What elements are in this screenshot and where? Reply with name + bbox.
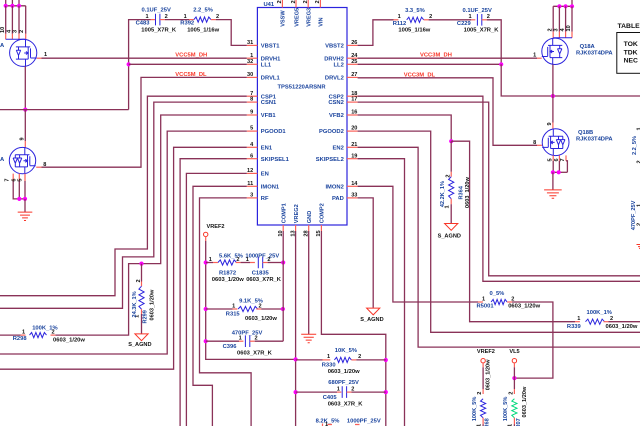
wire IMON1 (pin11) to bottom edge: [193, 186, 247, 426]
U41 pin 14 IMON2 (right): [347, 185, 358, 187]
resistor R392 2.2_5%: [194, 17, 211, 22]
svg-text:TOK: TOK: [624, 41, 638, 48]
svg-text:2: 2: [477, 392, 483, 395]
U41 pin 32 LL1 (left): [247, 63, 258, 65]
svg-text:2: 2: [216, 14, 219, 20]
U41 pin 17 CSN2 (right): [347, 101, 358, 103]
wire COMP2 (pin15) down and over to R330/C405 right node: [321, 231, 385, 426]
resistor R112 3.3_5%: [407, 17, 424, 22]
U41 pin 3 RF (left): [247, 197, 258, 199]
svg-text:VREG5: VREG5: [294, 8, 300, 27]
wire LL1 bootstrap riser and top run: [129, 20, 151, 65]
svg-text:2: 2: [511, 296, 514, 302]
svg-text:2: 2: [487, 14, 490, 20]
wire EN1 (pin4) to left edge: [0, 147, 247, 369]
svg-text:VIN: VIN: [319, 17, 325, 26]
Q17A drain bus bar: [6, 38, 26, 40]
wire GND (pin28) vertical: [308, 231, 310, 334]
junction: [570, 4, 574, 8]
svg-text:2: 2: [547, 28, 553, 31]
transistor Q17B (label cut at left edge): [9, 147, 35, 173]
svg-text:R339: R339: [567, 324, 582, 330]
wire VREF2 vertical to R330 node: [206, 241, 296, 359]
svg-text:VCC5M_DL: VCC5M_DL: [175, 72, 207, 78]
svg-text:7: 7: [560, 158, 566, 161]
cut component pin stubs at bottom edge: [323, 424, 360, 426]
svg-text:R315: R315: [226, 311, 241, 317]
wire Q17B source to power ground: [24, 199, 26, 212]
Q17A drain pin wire 3: [18, 6, 20, 34]
wire CSN2 (pin17) to right edge: [358, 102, 640, 276]
U41 pin 26 VBST2 (right): [347, 44, 358, 46]
svg-text:0.1UF_25V: 0.1UF_25V: [463, 8, 492, 14]
svg-text:1: 1: [637, 204, 640, 207]
junction LL1/bootstrap: [127, 62, 131, 66]
svg-text:0.1UF_25V: 0.1UF_25V: [142, 8, 171, 14]
svg-text:SKIPSEL2: SKIPSEL2: [316, 157, 344, 163]
U41 pin 9 VFB1 (left): [247, 114, 258, 116]
svg-text:VL5: VL5: [509, 349, 519, 355]
wire LL2 node down and right to FET midpoint, off right edge: [501, 64, 640, 96]
svg-text:1: 1: [637, 127, 640, 130]
U41 pin 1 DRVH1 (left): [247, 57, 258, 59]
svg-text:PGOOD1: PGOOD1: [261, 129, 287, 135]
svg-text:33: 33: [351, 193, 357, 199]
Q18A drain pin wire: [558, 6, 560, 31]
svg-text:22: 22: [303, 0, 309, 4]
svg-text:24: 24: [351, 53, 358, 59]
svg-text:5: 5: [18, 178, 24, 181]
svg-text:1: 1: [533, 52, 536, 58]
U41 top pin 22 VREG3: [307, 0, 309, 8]
svg-text:VREF2: VREF2: [207, 224, 225, 230]
svg-text:9: 9: [250, 110, 253, 116]
wire C483 to R392: [165, 19, 189, 21]
svg-text:VFB1: VFB1: [261, 113, 277, 119]
U41 pin 25 LL2 (right): [347, 63, 358, 65]
svg-text:0603_1/20w: 0603_1/20w: [53, 337, 85, 343]
ground S_AGND below R364: [445, 224, 458, 231]
svg-text:12: 12: [247, 168, 253, 174]
junction VL5 wire: [512, 376, 516, 380]
wire CSP2 (pin18) to right edge: [358, 96, 640, 281]
U41 pin 19 SKIPSEL2 (right): [347, 158, 358, 160]
svg-text:2: 2: [136, 279, 142, 282]
ground S_AGND on PAD: [367, 308, 380, 315]
wire R5001 to VL5 node: [512, 302, 553, 378]
capacitor C396 470PF_25V to COMP1: [206, 340, 239, 342]
U41 pin 24 DRVH2 (right): [347, 57, 358, 59]
svg-text:1: 1: [325, 422, 328, 426]
wire LL1 riser to pin 32: [128, 64, 130, 109]
U41 pin 12 EN (left): [247, 172, 258, 174]
svg-text:9: 9: [19, 137, 25, 140]
svg-text:1: 1: [184, 14, 187, 20]
svg-text:0603_1/20w: 0603_1/20w: [485, 359, 491, 390]
U41 pin 31 VBST1 (left): [247, 44, 258, 46]
svg-text:C229: C229: [457, 21, 472, 27]
svg-text:1: 1: [232, 303, 235, 309]
svg-text:27: 27: [351, 72, 357, 78]
junction COMP1/R315: [281, 307, 285, 311]
Q17A gate stub: [37, 57, 42, 59]
svg-text:R298: R298: [13, 336, 28, 342]
svg-text:3: 3: [13, 30, 19, 33]
wire CSN1 (pin8) to left edge: [0, 102, 247, 308]
svg-text:EN1: EN1: [261, 145, 273, 151]
wire C229 to LL2 node: [487, 20, 502, 65]
svg-text:U41: U41: [264, 2, 275, 8]
svg-text:2: 2: [165, 14, 168, 20]
U41 pin 7 CSP1 (left): [247, 95, 258, 97]
svg-text:TABLE: TABLE: [618, 23, 640, 30]
ground (earth) on GND pin: [301, 334, 316, 342]
svg-text:100K_1%: 100K_1%: [587, 310, 612, 316]
svg-text:9: 9: [547, 122, 553, 125]
svg-text:3: 3: [554, 28, 560, 31]
wire COMP1 (pin10) vertical: [282, 231, 284, 309]
Q18A drain pin wire: [565, 6, 567, 31]
svg-text:R1872: R1872: [219, 270, 236, 276]
resistor R1872 5.6K_5% + capacitor C1835 1000PF_25V to COMP1: [206, 262, 213, 264]
svg-text:23: 23: [291, 0, 297, 4]
svg-text:10K_5%: 10K_5%: [335, 348, 357, 354]
svg-text:S_AGND: S_AGND: [438, 233, 461, 239]
svg-text:VCC5M_DH: VCC5M_DH: [175, 53, 207, 59]
svg-text:20: 20: [351, 126, 357, 132]
svg-text:3: 3: [250, 193, 253, 199]
U41 pin 27 DRVL2 (right): [347, 76, 358, 78]
wire CSP1 (pin7) to left edge: [0, 96, 247, 296]
Q18A drain pin wire: [571, 6, 573, 31]
table box: [617, 33, 640, 74]
U41 top pin 29 VSSW: [281, 0, 283, 8]
svg-text:3.3_5%: 3.3_5%: [405, 8, 425, 14]
wire PGOOD1 (pin5) to left edge: [0, 131, 247, 354]
svg-text:DRVL2: DRVL2: [325, 76, 344, 82]
svg-text:14: 14: [351, 181, 358, 187]
wire R112 to C229: [429, 19, 472, 21]
svg-text:0603_1/20w: 0603_1/20w: [212, 277, 244, 283]
junction LL1/Q17A source: [23, 108, 27, 112]
Q17B gate stub: [36, 166, 41, 168]
Q17A drain pin wire 1: [5, 6, 7, 34]
svg-text:CSN1: CSN1: [261, 100, 277, 106]
svg-text:S_AGND: S_AGND: [128, 342, 151, 348]
wire VFB1 (pin9) feedback node: [55, 115, 246, 335]
red net marker cut at right edge: [637, 245, 640, 249]
Q18A drain pin wire: [552, 6, 554, 31]
net connector circle VL5: [512, 359, 516, 363]
wire VCC5M_DH : Q17A gate to DRVH1: [42, 57, 247, 59]
svg-text:19: 19: [351, 153, 357, 159]
U41 pin 8 CSN1 (left): [247, 101, 258, 103]
svg-text:31: 31: [247, 40, 253, 46]
svg-text:S_AGND: S_AGND: [360, 317, 383, 323]
svg-text:Q18A: Q18A: [580, 44, 596, 50]
U41 pin 18 CSP2 (right): [347, 95, 358, 97]
junction: [17, 197, 21, 201]
wire SKIPSEL2 (pin19) to bottom edge: [358, 159, 405, 426]
svg-text:R392: R392: [180, 21, 194, 27]
resistor (100K_5%) on VREF2: [482, 363, 484, 367]
ground (power) below Q18B: [544, 190, 562, 198]
svg-text:DRVH1: DRVH1: [261, 56, 281, 62]
svg-text:C396: C396: [223, 344, 238, 350]
junction R330 left: [294, 357, 298, 361]
wire LL2 : pin25 to bootstrap node: [358, 63, 502, 65]
resistor R5001 0_5%: [491, 299, 507, 304]
svg-text:11: 11: [247, 181, 253, 187]
svg-text:R68: R68: [485, 418, 491, 426]
svg-text:1: 1: [398, 14, 401, 20]
svg-text:R07: R07: [516, 418, 522, 426]
svg-text:2.2_5%: 2.2_5%: [632, 136, 638, 155]
junction: [551, 170, 555, 174]
junction R299 top: [139, 262, 143, 266]
svg-text:0603_1/20w: 0603_1/20w: [522, 386, 528, 417]
net connector circle VREF2: [481, 359, 485, 363]
wire VCC5M_DL : DRVL1 to Q17B gate: [42, 77, 247, 167]
wire VFB2 node over to R339 riser: [451, 141, 575, 322]
wire R392 to VBST1 pin 31: [216, 20, 247, 46]
svg-text:EN: EN: [261, 172, 269, 178]
svg-text:R5001: R5001: [477, 304, 495, 310]
op-amp/controller U41 TPS51220ARSNR body: [257, 8, 347, 226]
capacitor C405 680PF_25V: [296, 391, 337, 393]
svg-text:TPS51220ARSNR: TPS51220ARSNR: [278, 85, 327, 91]
svg-text:0603_1/20w: 0603_1/20w: [245, 316, 277, 322]
wire Q17A source down to LL1 node: [24, 66, 26, 109]
U41 pin 4 EN1 (left): [247, 146, 258, 148]
svg-text:2: 2: [637, 160, 640, 163]
resistor R364 42.2K_1% vertical to S_AGND: [450, 141, 452, 172]
svg-text:29: 29: [277, 0, 283, 4]
svg-text:PAD: PAD: [332, 196, 344, 202]
svg-text:1: 1: [250, 53, 253, 59]
svg-text:1: 1: [337, 386, 340, 392]
svg-text:R330: R330: [322, 362, 336, 368]
Q18A drain bus bar: [553, 37, 572, 39]
junction: [17, 4, 21, 8]
svg-text:DRVH2: DRVH2: [324, 56, 344, 62]
ground S_AGND below R299: [135, 334, 148, 341]
transistor Q17A (label cut at left edge): [10, 39, 37, 66]
svg-text:RJK03T4DPA: RJK03T4DPA: [576, 51, 613, 57]
svg-text:1: 1: [145, 14, 148, 20]
svg-text:30: 30: [247, 72, 253, 78]
capacitor C483 0.1UF_25V: [156, 14, 160, 26]
svg-text:100K_5%: 100K_5%: [503, 397, 509, 422]
wire PGOOD2 (pin20) to right edge: [358, 131, 640, 332]
svg-text:COMP2: COMP2: [320, 203, 326, 223]
wire Q17B drain from LL1 node: [24, 110, 26, 141]
U41 top pin 2 VIN: [319, 0, 321, 8]
svg-text:DRVL1: DRVL1: [261, 76, 281, 82]
U41 pin 6 SKIPSEL1 (left): [247, 158, 258, 160]
junction C405 right: [384, 390, 388, 394]
svg-text:0603_1/20w: 0603_1/20w: [465, 177, 471, 208]
svg-text:2: 2: [358, 354, 361, 360]
svg-text:VCC3M_DH: VCC3M_DH: [420, 53, 452, 59]
junction: [557, 4, 561, 8]
svg-text:IMON2: IMON2: [325, 184, 343, 190]
svg-text:2: 2: [637, 223, 640, 226]
svg-text:2: 2: [19, 30, 25, 33]
svg-text:CSN2: CSN2: [328, 100, 343, 106]
svg-text:7: 7: [5, 178, 11, 181]
VIN rail top-right: [571, 0, 573, 6]
resistor R330 10K_5%: [296, 359, 323, 361]
wire VCC3M_DH : DRVH2 to Q18A gate: [358, 57, 537, 59]
svg-text:VREG2: VREG2: [294, 204, 300, 223]
junction: [557, 170, 561, 174]
junction C405 left: [294, 390, 298, 394]
svg-text:1: 1: [239, 336, 242, 342]
resistor R315 9.1K_5% to COMP1: [206, 308, 233, 310]
svg-text:0603_X7R_K: 0603_X7R_K: [246, 277, 282, 283]
wire C396 right end up to R315/COMP1 node: [282, 309, 284, 341]
wire Q18B source to power ground: [552, 172, 554, 190]
svg-text:1005_X7R_K: 1005_X7R_K: [464, 28, 500, 34]
svg-text:5: 5: [250, 126, 253, 132]
junction: [23, 197, 27, 201]
U41 bottom pin 10 COMP1: [282, 225, 284, 231]
wire VCC3M_DL : DRVL2 to Q18B gate: [358, 78, 537, 146]
U41 bottom pin 15 COMP2: [320, 225, 322, 231]
junction: [4, 4, 8, 8]
svg-text:2: 2: [267, 257, 270, 263]
wire VREG2 (pin13) vertical to bottom edge: [295, 231, 297, 426]
svg-text:VSSW: VSSW: [281, 10, 287, 27]
net connector circle VREF2: [204, 232, 208, 236]
VIN rail top-left: [5, 0, 7, 6]
svg-text:SKIPSEL1: SKIPSEL1: [261, 157, 290, 163]
svg-text:6: 6: [11, 178, 17, 181]
svg-text:1005_1/16w: 1005_1/16w: [398, 28, 430, 34]
svg-text:R112: R112: [393, 21, 407, 27]
svg-text:2: 2: [610, 316, 613, 322]
wire IMON2 (pin14) to R5001: [358, 186, 478, 302]
junction R315 line: [204, 307, 208, 311]
svg-text:21: 21: [351, 142, 357, 148]
svg-text:0603_1/20w: 0603_1/20w: [328, 369, 360, 375]
transistor Q18B RJK03T4DPA: [542, 129, 569, 156]
svg-text:0603_X7R_K: 0603_X7R_K: [328, 402, 364, 408]
svg-text:100K_5%: 100K_5%: [472, 397, 478, 422]
wire EN (pin12) to bottom edge: [186, 173, 246, 426]
svg-text:PGOOD2: PGOOD2: [319, 129, 344, 135]
svg-text:8: 8: [250, 97, 253, 103]
resistor R298 100K_1% in series to left edge: [51, 334, 56, 336]
svg-text:0603_1/20w: 0603_1/20w: [606, 324, 638, 330]
svg-text:R299: R299: [143, 310, 149, 323]
svg-text:COMP1: COMP1: [282, 203, 288, 223]
svg-text:8: 8: [43, 162, 46, 168]
wire Q18A source to midpoint: [552, 65, 554, 97]
wire SKIPSEL1 (pin6) to bottom edge: [180, 159, 247, 426]
U41 bottom pin 13 VREG2: [295, 225, 297, 231]
svg-text:TDK: TDK: [624, 49, 638, 56]
svg-text:Q18B: Q18B: [578, 130, 593, 136]
svg-text:2: 2: [51, 329, 54, 335]
svg-text:GND: GND: [307, 211, 313, 223]
svg-text:25: 25: [351, 59, 357, 65]
svg-text:680PF_25V: 680PF_25V: [328, 380, 359, 386]
svg-text:2: 2: [429, 14, 432, 20]
svg-text:2: 2: [446, 174, 452, 177]
svg-text:VCC3M_DL: VCC3M_DL: [404, 72, 436, 78]
svg-text:2: 2: [351, 386, 354, 392]
svg-text:42.2K_1%: 42.2K_1%: [440, 181, 446, 207]
svg-text:26: 26: [351, 40, 357, 46]
svg-text:LL1: LL1: [261, 62, 272, 68]
svg-text:VREG3: VREG3: [307, 8, 313, 27]
junction VFB2 divider: [449, 139, 453, 143]
svg-text:R364: R364: [458, 185, 464, 199]
U41 bottom pin 28 GND: [308, 225, 310, 231]
svg-text:1005_1/16w: 1005_1/16w: [187, 27, 219, 33]
U41 pin 16 VFB2 (right): [347, 114, 358, 116]
svg-text:1: 1: [246, 257, 249, 263]
svg-text:1: 1: [327, 354, 330, 360]
svg-text:2: 2: [236, 257, 239, 263]
svg-text:470PF_25V: 470PF_25V: [232, 330, 263, 336]
svg-text:C405: C405: [323, 395, 338, 401]
svg-text:VFB2: VFB2: [329, 113, 344, 119]
svg-text:EN2: EN2: [333, 145, 344, 151]
svg-text:RJK03T4DPA: RJK03T4DPA: [576, 137, 613, 143]
svg-text:C1835: C1835: [252, 270, 270, 276]
junction COMP1: [281, 260, 285, 264]
Q18B source pins 5,6,7: [552, 155, 554, 160]
capacitor C229 0.1UF_25V: [477, 14, 481, 26]
svg-text:RF: RF: [261, 196, 269, 202]
svg-text:VBST2: VBST2: [325, 44, 344, 50]
svg-text:VBST1: VBST1: [261, 44, 280, 50]
U41 pin 20 PGOOD2 (right): [347, 130, 358, 132]
U41 pin 11 IMON1 (left): [247, 185, 258, 187]
wire EN2 (pin21) to right edge: [358, 147, 640, 347]
svg-text:1000PF_25V: 1000PF_25V: [347, 419, 381, 425]
junction: [10, 4, 14, 8]
wire PAD (pin33) to S_AGND: [358, 198, 374, 308]
U41 pin 33 PAD (right): [347, 197, 358, 199]
svg-text:0603_X7R_K: 0603_X7R_K: [237, 350, 273, 356]
svg-text:24.3K_1%: 24.3K_1%: [132, 291, 138, 317]
svg-text:2: 2: [258, 303, 261, 309]
svg-text:6: 6: [250, 153, 253, 159]
svg-text:0603_1/20w: 0603_1/20w: [149, 289, 155, 320]
svg-text:2: 2: [254, 336, 257, 342]
Q17B source pins 7,6,5: [12, 174, 14, 181]
U41 pin 30 DRVL1 (left): [247, 76, 258, 78]
resistor R339 100K_1% to right edge: [575, 321, 580, 323]
wire RF (pin3) to bottom edge: [200, 198, 252, 426]
svg-text:0_5%: 0_5%: [490, 291, 505, 297]
transistor Q18A RJK03T4DPA: [542, 38, 568, 64]
wire midpoint down to Q18B drain: [552, 96, 554, 123]
svg-text:10: 10: [0, 27, 6, 33]
Q17A drain pin wire 2: [11, 6, 13, 34]
junction R1872 line: [204, 260, 208, 264]
U41 pin 5 PGOOD1 (left): [247, 130, 258, 132]
svg-text:VREF2: VREF2: [477, 349, 495, 355]
svg-text:16: 16: [351, 110, 357, 116]
svg-text:IMON1: IMON1: [261, 184, 280, 190]
resistor R1107 (100K_5%, highlighted green) on VL5: [513, 363, 515, 367]
svg-text:LL2: LL2: [333, 62, 343, 68]
